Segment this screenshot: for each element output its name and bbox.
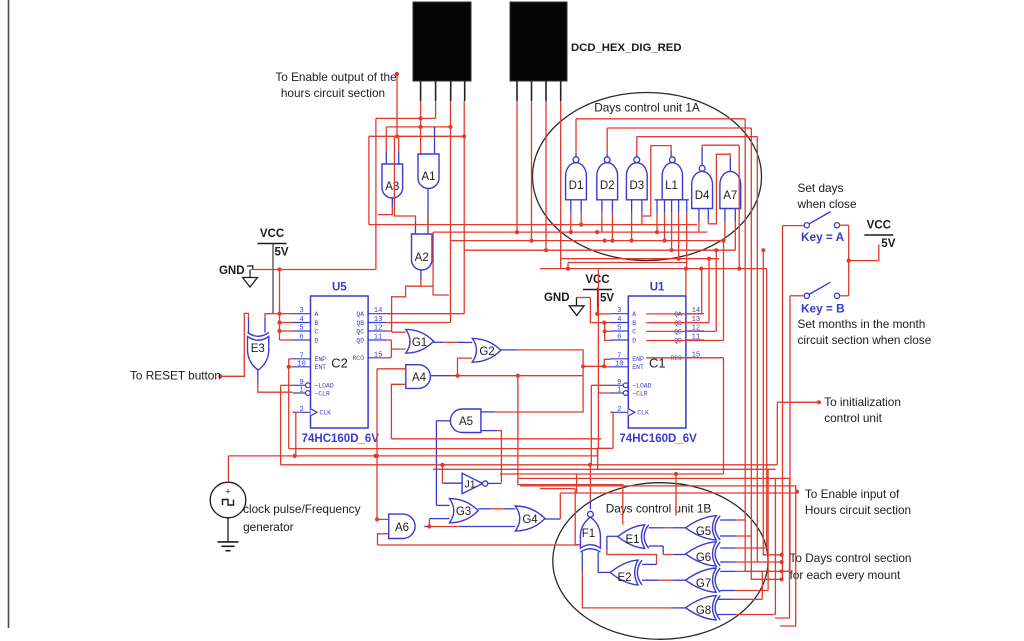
svg-text:7: 7 [617,352,621,360]
wire bus y262 [568,262,686,264]
svg-text:generator: generator [243,520,294,534]
svg-text:QB: QB [356,320,364,327]
wire L1 output to D3 [642,146,671,216]
svg-text:VCC: VCC [585,274,609,286]
wire bus y258 [561,258,719,260]
svg-text:A: A [632,311,636,318]
power VCC right [864,220,895,251]
wire E1 input1 from G5 [649,527,686,529]
wire Key B down [789,296,791,572]
svg-text:F1: F1 [582,528,595,540]
7-segment display DS2 DCD_HEX_DIG_RED [510,2,567,101]
svg-text:A2: A2 [415,252,429,264]
gate D4 [692,166,713,209]
svg-text:74HC160D_6V: 74HC160D_6V [619,433,697,445]
wire bus y224 [369,224,697,226]
wire display1 pin2 net [376,101,436,270]
wire G5 inputs [720,520,751,536]
svg-text:5: 5 [299,325,303,333]
svg-text:Key = B: Key = B [801,302,845,316]
svg-text:QA: QA [356,311,364,318]
svg-text:QD: QD [356,337,364,344]
gate G1 [406,329,434,353]
svg-text:VCC: VCC [867,220,891,232]
wire to-enable vertical [396,74,398,136]
svg-text:control unit: control unit [824,411,882,425]
wire h-line y136 [369,134,464,138]
gate A3 [382,164,403,198]
label set days [797,181,857,211]
label to initialization [824,395,901,425]
svg-text:74HC160D_6V: 74HC160D_6V [302,433,380,445]
svg-text:QB: QB [674,320,682,327]
svg-text:G6: G6 [696,552,711,564]
svg-text:G8: G8 [696,605,711,617]
wire A4 input1 clock [377,368,406,370]
svg-text:RCO: RCO [353,355,365,362]
svg-text:when close: when close [797,197,857,211]
svg-text:4: 4 [617,316,621,324]
svg-text:VCC: VCC [260,228,284,240]
svg-text:B: B [315,320,319,327]
wire D1 out line [576,118,745,120]
wire bundle y478 [518,478,790,618]
svg-text:To Enable input of: To Enable input of [805,487,900,501]
svg-text:A1: A1 [421,171,435,183]
wire A5 input2 from J1 [481,431,502,483]
svg-text:A3: A3 [385,181,399,193]
svg-text:Days control unit 1A: Days control unit 1A [594,101,700,115]
svg-text:5: 5 [617,325,621,333]
svg-text:G1: G1 [412,337,427,349]
ground clock gnd [218,542,239,551]
wire E3 input2 [265,314,273,333]
wire bundle y474 rco [500,473,724,475]
svg-text:5V: 5V [881,238,895,250]
gate F1 [580,511,600,552]
svg-text:E2: E2 [617,572,631,584]
wire A2 input1 [394,136,415,234]
svg-text:Days control unit 1B: Days control unit 1B [606,502,712,516]
svg-text:D2: D2 [600,180,615,192]
wire U1 input A [595,312,610,316]
svg-text:~LOAD: ~LOAD [632,383,651,390]
svg-text:Key = A: Key = A [801,230,845,244]
wire A4 output net [430,374,583,378]
ground GND mid label [544,292,570,304]
wire GND-net horizontal y269 [251,267,376,271]
counter U5 74HC160D C2 [293,282,387,446]
svg-text:2: 2 [617,406,621,414]
svg-text:ENT: ENT [315,364,327,371]
gate D1 [566,157,587,200]
svg-text:D3: D3 [629,180,644,192]
power VCC mid [583,274,614,305]
wire G8 inputs [718,478,776,614]
counter U1 74HC160D C1 [610,282,704,446]
wire L1 inputs [655,200,687,268]
gate A1 [418,154,439,189]
wire A5 input1 [481,411,495,413]
svg-text:To RESET button: To RESET button [130,369,221,383]
label set months [798,317,932,347]
wire VCC left stem [273,244,280,314]
switch Key B [790,282,849,298]
wire U1 QA net [646,269,701,314]
wire net ENP y448 [289,393,611,449]
svg-text:QC: QC [356,328,364,335]
wire U5 RCO net [386,349,406,358]
svg-text:To initialization: To initialization [824,395,901,409]
wire Key A down [782,226,784,580]
svg-text:+: + [225,487,231,498]
wire A4 input2 [391,384,405,439]
wire to enable input [560,474,799,494]
svg-text:Set months in the month: Set months in the month [798,317,926,331]
svg-text:G7: G7 [696,578,711,590]
svg-text:J1: J1 [464,479,475,491]
gate E2 [610,560,642,585]
wire U5 QB net [386,322,451,324]
svg-text:A6: A6 [395,522,409,534]
gate E3 [248,333,269,371]
wire left loop x369 [368,136,370,224]
gate D3 [626,157,647,200]
wire F1 input2 from E2 [598,552,610,572]
wire D2 inputs [602,200,615,243]
wire G2 lower input [458,358,473,376]
label to enable input [805,487,911,517]
wire G3 lower input [429,518,449,520]
svg-text:A7: A7 [723,190,737,202]
power VCC left [258,228,289,259]
wire net y469 [433,449,775,470]
svg-text:Hours circuit section: Hours circuit section [805,503,911,517]
wire F1 left feed [540,489,580,545]
gate G6 [686,542,721,566]
wire to initialization [777,400,821,404]
wire net LOAD y465 [281,402,778,467]
wire D3 inputs [630,200,642,243]
svg-text:hours circuit section: hours circuit section [281,86,385,100]
svg-text:7: 7 [299,352,303,360]
label Key = B [801,302,845,316]
svg-text:GND: GND [219,265,245,277]
svg-text:4: 4 [299,316,303,324]
wire A6 output junction [424,519,431,529]
svg-text:2: 2 [299,406,303,414]
wire display1 pin3 net [448,101,452,323]
wire bus y250 [464,248,735,252]
wire display2 pin drops [517,101,561,269]
wire net y439 [391,438,601,440]
svg-text:clock pulse/Frequency: clock pulse/Frequency [243,502,360,516]
wire E3 output to U5 CLR [258,370,293,392]
ground GND left symbol [243,266,258,287]
wire D2 output [606,128,608,157]
switch Key A [783,212,849,228]
wire D4 out line [702,144,739,146]
wire U1 CLR pass vertical [597,269,599,393]
wire U5 CLK net [293,412,296,456]
svg-text:5V: 5V [275,247,289,259]
wire U1 ENP ENT feed [583,359,610,368]
wire U1 RCO net [646,358,723,474]
svg-text:RCO: RCO [670,355,682,362]
wire GND mid feed [576,297,590,299]
note: to enable output of hours circuit [275,70,397,100]
wire A7 inputs [725,209,735,251]
wire net clock y456 [228,448,613,458]
gate A4 [406,365,431,389]
wire bundle y485 [520,486,796,626]
svg-text:10: 10 [297,360,306,368]
wire F1 input1 from G8 [582,552,658,608]
wire G7 inputs [720,469,768,590]
wire D3 out line [637,136,758,138]
svg-text:A: A [315,311,319,318]
svg-text:GND: GND [544,292,570,304]
label clock generator [243,502,360,534]
svg-text:L1: L1 [665,180,678,192]
wire rbundle v0 [737,145,741,271]
label Days control unit 1B [606,502,712,516]
wire D2 out line [607,127,751,129]
wire G6 inputs [720,548,767,562]
wire bus y240 [450,239,725,243]
wire VCC mid stem [597,288,599,314]
wire A3 output [378,198,392,215]
svg-text:~LOAD: ~LOAD [315,383,334,390]
label Key = A [801,230,845,244]
wire display1 pin1 net [419,101,423,154]
svg-text:6: 6 [617,334,621,342]
gate G7 [686,568,721,592]
wire A7 output to D4 [708,154,730,224]
wire E1 output to E2 [607,536,657,564]
wire A1 output to A2 [427,189,429,235]
label To RESET button [130,369,221,383]
wire U5 ENP ENT net [287,359,293,449]
wire A3 input1 [385,127,387,164]
wire G2 output to U1 enable [495,350,585,412]
wire display1 pin4 net [462,101,466,314]
label Days control unit 1A [594,101,700,115]
svg-text:12: 12 [374,325,383,333]
wire D4 inputs [699,209,708,233]
gate L1 [654,157,688,200]
gate G2 [472,338,501,362]
svg-text:5V: 5V [600,293,614,305]
svg-text:CLK: CLK [637,410,649,417]
wire D1 output [575,119,577,157]
svg-text:14: 14 [374,307,383,315]
wire G7 output to E2 [642,579,686,581]
ground GND mid symbol [569,298,584,316]
svg-text:U1: U1 [650,282,665,294]
svg-text:A4: A4 [412,372,427,384]
svg-text:ENP: ENP [315,356,327,363]
svg-text:B: B [632,320,636,327]
wire A3 input2 [398,136,400,164]
svg-text:U5: U5 [332,282,347,294]
gate A7 [720,171,741,208]
label to days control [790,551,912,582]
wire D1 inputs [569,200,584,234]
gate G3 [450,499,479,523]
svg-text:1: 1 [299,387,303,395]
wire U5 QD stub [386,340,391,349]
svg-text:D: D [632,337,636,344]
svg-text:G5: G5 [696,526,711,538]
svg-text:~CLR: ~CLR [632,390,648,397]
gate G8 [686,596,721,620]
region ellipse Days control unit 1A [533,93,762,261]
svg-text:Set days: Set days [798,181,844,195]
svg-text:circuit section when close: circuit section when close [798,333,932,347]
wire E3 input1 reset net [220,313,248,376]
svg-text:10: 10 [615,360,624,368]
gate A6 [389,514,415,538]
svg-text:G2: G2 [479,346,494,358]
svg-text:G4: G4 [522,514,538,526]
wire bus y269 [540,263,767,297]
wire U1 QC net [646,248,718,331]
svg-text:D: D [315,337,319,344]
gate J1 inverter [462,473,488,494]
svg-text:11: 11 [374,334,383,342]
svg-text:DCD_HEX_DIG_RED: DCD_HEX_DIG_RED [571,42,682,54]
svg-text:for each every mount: for each every mount [790,568,902,582]
wire U1 CLK wire [611,412,614,448]
gate G5 [686,516,721,540]
svg-text:D1: D1 [569,180,584,192]
svg-text:ENT: ENT [632,364,644,371]
gate E1 [618,525,649,549]
ground GND left label [219,265,245,277]
svg-text:QA: QA [674,311,682,318]
svg-text:E3: E3 [251,343,265,355]
gate G4 [515,506,545,531]
wire U1 input B C D feeds from GND [590,298,610,341]
wire A5 output to G3 [436,421,450,506]
wire A6 input1 clock [375,517,389,521]
gate A5 [450,409,481,433]
gate A2 [412,234,433,270]
wire D4 output [701,145,703,165]
label DCD_HEX_DIG_RED [571,42,682,54]
wire U5 QA net [386,313,464,315]
wire rbundle v2 [751,128,782,579]
wire net y545 [378,544,579,546]
svg-text:13: 13 [374,316,383,324]
wire F1 output up [589,464,591,509]
svg-text:ENP: ENP [632,356,644,363]
wire G4 output net [545,493,560,519]
wire A1 input2 [434,127,436,154]
wire U1 LOAD net [591,385,610,465]
svg-text:15: 15 [374,351,383,359]
wire G8 output link [659,607,686,609]
wire G5 top drop [674,472,678,516]
wire clock to net [227,456,229,542]
wire U1 QD net [646,239,725,341]
wire U5 QC net [386,331,406,332]
svg-text:3: 3 [299,307,303,315]
wire G4 lower input from A6 [429,526,515,528]
svg-text:E1: E1 [625,534,639,546]
wire rbundle v1 [745,119,790,572]
svg-text:C2: C2 [331,356,348,371]
svg-text:G3: G3 [456,506,471,518]
wire E1 input2 from G6 [649,546,686,555]
wire A4 net to E1 [518,376,623,525]
svg-text:CLK: CLK [320,410,332,417]
wire clock vertical x377 [375,369,379,520]
svg-text:3: 3 [617,307,621,315]
wire G1 output [434,341,473,343]
wire A2 output net [392,232,449,332]
svg-text:6: 6 [299,334,303,342]
svg-text:D4: D4 [695,190,710,202]
region ellipse Days control unit 1B [553,483,768,640]
svg-text:C: C [315,328,319,335]
node days dots [780,553,784,582]
svg-text:1: 1 [617,387,621,395]
wire J1 input [440,463,462,483]
wire A6 input2 [378,534,389,545]
wire VCC feed to U5 inputs [277,270,292,341]
wire G3 output [478,508,515,510]
wire rbundle v5 [761,248,781,555]
wire rbundle v3 [757,137,781,562]
source clock generator [210,482,246,518]
wire rbundle v6 [766,269,768,548]
svg-text:To Days control section: To Days control section [790,551,912,565]
svg-text:A5: A5 [459,416,473,428]
wire U5 LOAD net [281,385,293,465]
svg-text:C: C [632,328,636,335]
node To-Enable-output dot [395,72,399,76]
wire h-line y127 [386,126,450,128]
wire D3 output [636,137,638,157]
frame left border [8,0,10,628]
gate D2 [597,157,618,200]
svg-text:To Enable output of the: To Enable output of the [275,70,397,84]
7-segment display DS1 [413,2,471,101]
wire J1 output [488,482,502,484]
node reset dot [218,374,222,378]
wire U1 QB net [646,257,711,323]
svg-text:~CLR: ~CLR [315,390,331,397]
wire VCC right to switches [847,225,879,296]
wire bus y232 [433,230,707,234]
